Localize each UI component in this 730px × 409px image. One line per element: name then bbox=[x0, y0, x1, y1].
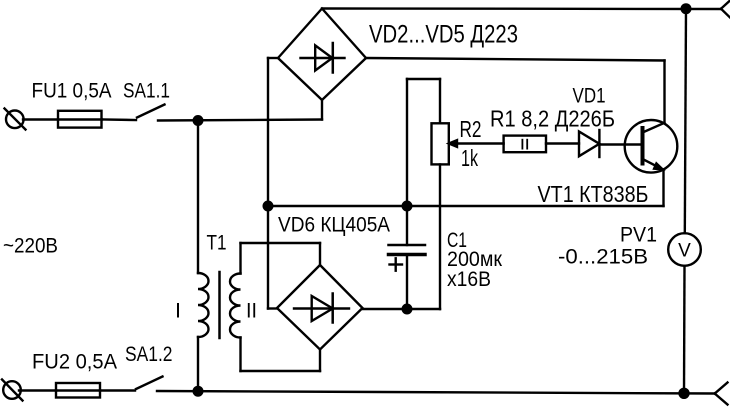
svg-text:х16В: х16В bbox=[447, 267, 491, 291]
bottom rail wire bbox=[157, 391, 715, 394]
svg-text:1k: 1k bbox=[461, 145, 478, 171]
top output rail wire bbox=[322, 7, 721, 10]
bridge rectifier VD6 diamond bbox=[277, 265, 363, 350]
svg-text:SA1.2: SA1.2 bbox=[125, 342, 173, 366]
svg-text:R2: R2 bbox=[460, 116, 482, 142]
transformer T1 winding II bbox=[230, 274, 241, 338]
svg-text:R1 8,2 Д226Б: R1 8,2 Д226Б bbox=[490, 106, 615, 132]
fuse FU1 bbox=[58, 111, 102, 128]
fuse FU2 bbox=[56, 383, 100, 398]
wire VD6 right corner to R2 bottom bbox=[363, 308, 440, 310]
transformer T1 primary wire top bbox=[197, 121, 199, 274]
wire vertical DC minus of VD2-VD5 down to emitter node and VD6 bbox=[267, 58, 269, 309]
bridge rectifier VD2...VD5 diamond bbox=[278, 9, 366, 101]
voltmeter PV1 wire bottom bbox=[683, 266, 686, 394]
svg-text:II: II bbox=[246, 299, 257, 323]
svg-text:FU2 0,5A: FU2 0,5A bbox=[32, 350, 118, 374]
svg-text:SA1.1: SA1.1 bbox=[123, 79, 170, 103]
svg-text:V: V bbox=[678, 241, 691, 262]
junction bottom of T1 primary bbox=[194, 387, 203, 396]
wire VD6 bottom corner to winding II bottom bbox=[241, 338, 321, 372]
output terminal bottom right bbox=[715, 383, 728, 405]
wire stub to VD6 left corner bbox=[268, 307, 277, 309]
terminal X2 (220V input, bottom left) bbox=[2, 380, 23, 401]
svg-text:~220В: ~220В bbox=[3, 234, 58, 258]
potentiometer R2 body bbox=[432, 123, 449, 164]
wire VD1 to base of VT1 bbox=[599, 143, 642, 145]
wire collector vertical bbox=[663, 61, 665, 124]
wire switch SA1.1 to bridge AC input bbox=[158, 120, 322, 121]
svg-text:I: I bbox=[175, 299, 181, 323]
junction node top of T1 primary bbox=[194, 116, 203, 125]
junction C1 bottom plus rail bbox=[403, 305, 412, 314]
junction top right rail bbox=[682, 4, 691, 13]
wire terminal X1 to fuse FU1 bbox=[23, 118, 58, 120]
terminal X1 (220V input, top left) bbox=[5, 109, 26, 130]
wire VD6 top corner to winding II top bbox=[241, 243, 321, 274]
diode inside bridge VD2...VD5 bbox=[301, 43, 345, 73]
junction bottom right rail bbox=[680, 389, 689, 398]
svg-text:VD2...VD5 Д223: VD2...VD5 Д223 bbox=[369, 21, 518, 49]
transformer T1 core bbox=[218, 272, 221, 338]
svg-text:VD6 КЦ405А: VD6 КЦ405А bbox=[278, 213, 391, 237]
wire R1 to VD1 bbox=[546, 142, 579, 144]
svg-text:PV1: PV1 bbox=[620, 223, 657, 247]
wire terminal X2 to fuse FU2 bbox=[19, 389, 56, 391]
svg-text:Т1: Т1 bbox=[207, 231, 227, 255]
transformer T1 primary wire bottom bbox=[197, 337, 199, 391]
transistor VT1 bbox=[625, 120, 678, 173]
capacitor C1 bbox=[389, 206, 426, 309]
junction R2 top / C1 top on emitter line bbox=[403, 202, 412, 211]
switch SA1.2 blade bbox=[136, 377, 163, 390]
transformer T1 winding I bbox=[198, 273, 209, 337]
diode inside bridge VD6 bbox=[294, 294, 349, 323]
svg-text:VD1: VD1 bbox=[573, 84, 606, 108]
wire bridge VD2-VD5 bottom corner to AC line bbox=[321, 100, 323, 120]
wire fuse FU1 to switch SA1.1 bbox=[102, 118, 136, 121]
wire fuse FU2 to switch SA1.2 bbox=[100, 389, 135, 391]
resistor R1 body bbox=[504, 136, 546, 153]
svg-text:FU1 0,5A: FU1 0,5A bbox=[32, 79, 113, 103]
wire bridge left corner stub bbox=[268, 57, 278, 59]
R2 wiper arrow bbox=[449, 140, 504, 147]
svg-text:VT1 КТ838Б: VT1 КТ838Б bbox=[538, 181, 649, 207]
junction emitter node bbox=[264, 202, 273, 211]
diode VD1 bbox=[579, 130, 599, 157]
switch SA1.1 blade bbox=[137, 105, 165, 118]
voltmeter PV1 wire top bbox=[685, 9, 686, 234]
emitter horizontal wire bbox=[268, 205, 664, 207]
emitter vertical wire bbox=[662, 170, 664, 207]
wire R2 bottom terminal down to plus rail bbox=[439, 164, 441, 309]
svg-text:-0...215В: -0...215В bbox=[558, 245, 648, 269]
wire R2 top terminal bbox=[407, 79, 440, 206]
output terminal top right bbox=[721, 1, 730, 18]
wire bridge right corner to collector bbox=[366, 58, 665, 61]
voltmeter PV1 bbox=[668, 233, 701, 266]
